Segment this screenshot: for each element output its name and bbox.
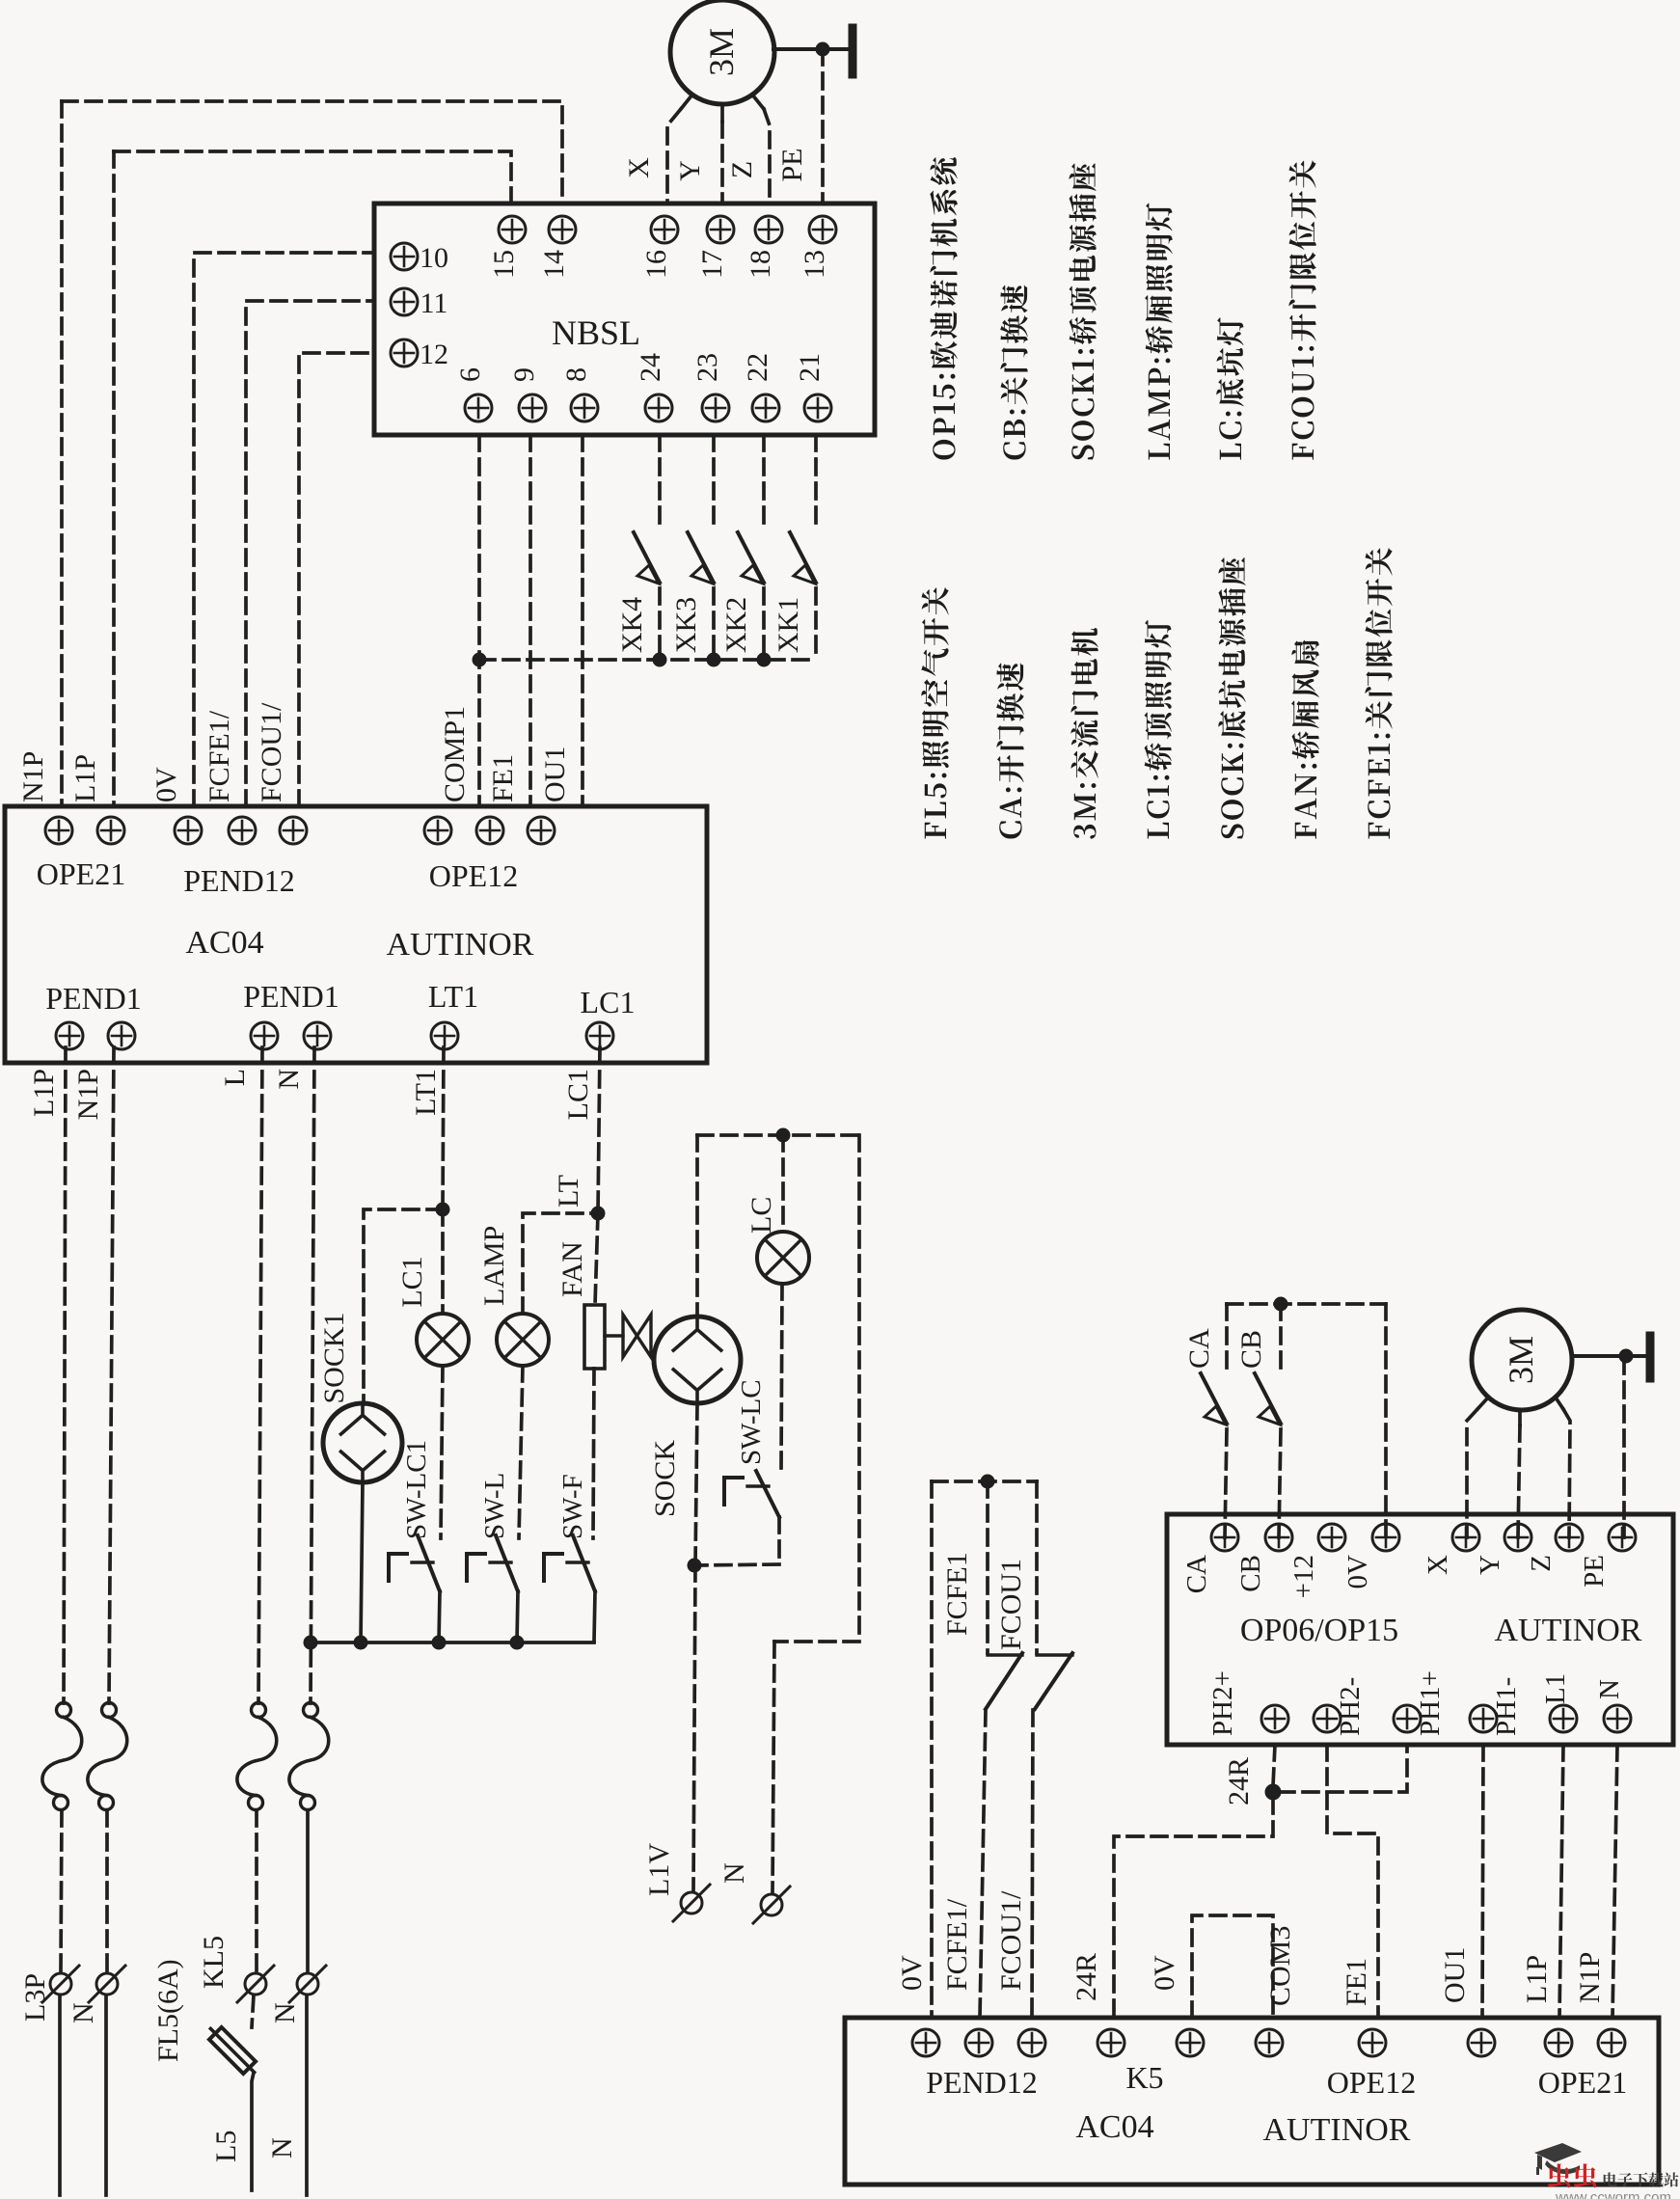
svg-text:LT1: LT1 [410,1069,442,1116]
NBSL pin 23 [702,394,729,421]
switch SW-L [496,1535,518,1642]
svg-text:N: N [269,2002,301,2023]
wire fuse elbow to L5 tail [252,2073,254,2190]
svg-text:XK4: XK4 [616,597,648,653]
wire CA stub [1225,1304,1229,1370]
junction CB [1274,1297,1287,1311]
svg-text:XK1: XK1 [772,597,804,653]
svg-text:AUTINOR: AUTINOR [1263,2112,1411,2148]
wire branch to N terminal [772,1642,774,1892]
svg-text:0V: 0V [150,767,182,802]
NBSL pin 14 [549,216,576,243]
OP06 pin L1 [1550,1705,1577,1732]
OP06 pin PH2- [1314,1705,1341,1732]
switch SW-LC1 [418,1535,440,1642]
wire PH1- to OU1 [1482,1745,1483,2018]
wire N tail [104,1995,108,2195]
svg-text:CB: CB [1235,1330,1267,1369]
OP06 pin +12 [1318,1524,1345,1551]
svg-text:FCOU1/: FCOU1/ [995,1890,1027,1991]
svg-text:N: N [68,2002,99,2023]
svg-text:SOCK1: SOCK1 [318,1312,350,1403]
svg-text:0V: 0V [1149,1955,1180,1991]
wire PE drop (bottom) [1622,1358,1626,1537]
svg-text:FCFE1: FCFE1 [941,1552,973,1636]
svg-text:LC1: LC1 [396,1256,428,1307]
junction bus [757,653,771,666]
legend text OP15 [930,157,957,459]
NBSL pin 21 [804,394,831,421]
AC04 lower terminal [304,1022,331,1049]
wire 0V drop [1384,1304,1388,1537]
wire N breaker to terminal [105,1810,109,1971]
svg-text:N1P: N1P [72,1069,104,1120]
breaker N1P-brk [88,1703,127,1810]
svg-text:AUTINOR: AUTINOR [1495,1613,1642,1648]
junction bus/N [304,1636,317,1649]
svg-text:L3P: L3P [19,1973,51,2022]
AC04 lower terminal [251,1022,278,1049]
svg-text:L1V: L1V [643,1843,675,1896]
svg-text:Y: Y [674,160,706,181]
wire lighting return bus [311,1641,594,1644]
wire K5 loop [1192,1915,1273,2018]
svg-text:L1P: L1P [1521,1955,1553,2003]
svg-text:14: 14 [538,250,570,279]
wire CB to terminal [1279,1429,1281,1537]
svg-text:L1P: L1P [28,1069,60,1117]
svg-text:LT: LT [553,1175,584,1208]
svg-text:24R: 24R [1070,1953,1102,2001]
switch SW-F actuator [544,1554,588,1581]
svg-text:X: X [1423,1555,1453,1575]
AC04 lower-box terminal [1598,2029,1625,2056]
svg-text:24: 24 [635,353,666,382]
svg-text:OP06/OP15: OP06/OP15 [1240,1613,1398,1648]
junction COMP1/bus [473,653,486,666]
svg-text:LC1: LC1 [581,985,636,1019]
AC04 AUTINOR controller box (lower) [845,2018,1659,2185]
AC04 lower-box terminal [1018,2029,1045,2056]
svg-text:FL5(6A): FL5(6A) [152,1959,184,2062]
ground symbol (bottom) [1572,1336,1650,1378]
svg-text:www.ccworm.com: www.ccworm.com [1555,2189,1671,2199]
svg-text:FE1: FE1 [1341,1958,1372,2006]
svg-text:PEND12: PEND12 [926,2065,1038,2100]
wire 24R down-left to AC04 [1114,1798,1273,2018]
AC04 lower-box terminal [1177,2029,1204,2056]
svg-text:LAMP: LAMP [478,1226,510,1306]
svg-text:N: N [1594,1679,1625,1699]
NBSL pin 13 [809,216,836,243]
wire L1P vertical column [112,151,116,806]
wire OU1 column NBSL pin 8 to AC04 [581,435,584,806]
wire FE1 column NBSL pin 9 to AC04 [528,435,532,806]
svg-text:+12: +12 [1288,1555,1319,1598]
svg-text:24R: 24R [1223,1757,1255,1805]
wire FCFE1 lower [980,1710,986,2018]
wire motor Z lead (bottom) [1556,1398,1563,1409]
svg-text:PEND12: PEND12 [183,863,295,898]
svg-text:XK2: XK2 [720,597,752,653]
switch XK1 [790,435,816,660]
NBSL controller box [374,204,875,435]
svg-text:Z: Z [726,161,758,178]
AC04 AUTINOR controller box (upper) [5,806,707,1063]
lamp LAMP [497,1314,549,1366]
svg-text:COMP1: COMP1 [439,706,471,802]
switch SW-LC1 actuator [389,1554,433,1581]
NBSL pin 17 [707,216,734,243]
switch SW-F [573,1535,595,1642]
svg-text:FCOU1/: FCOU1/ [256,702,287,802]
wire L1P horizontal run to NBSL pin 15 [114,151,511,204]
wire FCFE1/ column to NBSL pin 11 [246,301,374,806]
legend text FCFE1 [1365,548,1392,839]
svg-text:K5: K5 [1125,2060,1163,2095]
legend text LC1 [1145,620,1172,839]
wire LAMP up to LT junction [523,1213,598,1314]
wire 0V column to NBSL pin 10 [194,253,374,806]
junction 24R [1265,1784,1281,1800]
wire pit-switch bracket [932,1480,1037,1483]
switch FCOU1 [1035,1653,1072,1709]
wire N(4) breaker to terminal [306,1810,310,1971]
wire N1P horizontal top run to NBSL pin 14 [62,101,562,204]
wire pit top bracket [697,1133,859,1137]
svg-text:SOCK: SOCK [649,1440,681,1517]
wire KL5 breaker to terminal [255,1810,258,1971]
NBSL pin 10 [391,243,418,270]
AC04 upper terminal [45,817,72,844]
junction LT1 [436,1203,449,1216]
legend text FCOU1 [1288,160,1315,459]
svg-text:N: N [266,2137,298,2158]
OP06 pin X [1452,1524,1479,1551]
wire junction to FAN [595,1213,598,1305]
NBSL pin 16 [651,216,678,243]
svg-text:FAN: FAN [556,1241,588,1297]
wire LT1 down to junction [443,1047,444,1209]
AC04 lower terminal [431,1022,458,1049]
socket SOCK [654,1317,741,1403]
wire FCOU1 upper [1035,1481,1039,1653]
wire COMP1 column NBSL pin 6 to AC04 [477,435,481,806]
socket SOCK1 [323,1403,402,1482]
svg-text:XK3: XK3 [670,597,702,653]
switch SW-LC actuator [724,1478,769,1505]
AC04 lower-box terminal [1359,2029,1386,2056]
lamp LC1 [417,1314,469,1366]
switch SW-L actuator [467,1554,511,1581]
junction bus [653,653,666,666]
watermark 电子下载站 [1604,2172,1679,2186]
svg-text:Z: Z [1526,1555,1557,1572]
junction bus [707,653,720,666]
OP06 pin N [1604,1705,1631,1732]
wire L3P breaker to terminal [61,1810,62,1971]
AC04 lower-box terminal [1256,2029,1283,2056]
svg-text:PE: PE [1579,1555,1610,1588]
AC04 lower-box terminal [1468,2029,1495,2056]
svg-text:17: 17 [696,250,728,279]
wire motor Z lead [752,95,764,109]
svg-text:10: 10 [420,242,448,274]
svg-text:12: 12 [420,339,448,370]
svg-text:PH1-: PH1- [1491,1677,1522,1736]
svg-text:SW-L: SW-L [479,1473,510,1539]
svg-text:L5: L5 [210,2131,242,2162]
wire CA to terminal [1225,1429,1227,1537]
terminal N (pit) [753,1887,790,1923]
svg-text:PH2+: PH2+ [1207,1670,1238,1736]
svg-text:Y: Y [1475,1555,1505,1575]
svg-text:0V: 0V [896,1955,928,1991]
svg-text:FCFE1/: FCFE1/ [203,710,235,802]
wire L1P down to breaker [64,1047,66,1703]
wire right branch down [774,1135,859,1642]
wire motor Y lead [720,104,724,122]
svg-text:SW-F: SW-F [557,1474,588,1539]
svg-text:LT1: LT1 [428,979,478,1014]
svg-text:KL5: KL5 [198,1936,230,1989]
svg-text:FCOU1: FCOU1 [995,1559,1027,1650]
wire XK common bus to COMP1 [479,658,816,662]
svg-text:SW-LC1: SW-LC1 [401,1440,432,1539]
junction bus/SW-LC1 [432,1636,446,1649]
OP06 pin Z [1556,1524,1583,1551]
svg-text:L1: L1 [1540,1673,1571,1704]
wire LT1 to lamp LC1 [441,1209,445,1314]
svg-text:L: L [219,1069,251,1086]
svg-text:PH1+: PH1+ [1415,1670,1446,1736]
wire CB stub [1279,1304,1283,1370]
OP06 pin PH1+ [1394,1705,1421,1732]
svg-text:CA: CA [1181,1555,1212,1593]
legend text FL5 [921,587,948,839]
wire SOCK to junction [695,1403,697,1565]
NBSL pin 12 [391,339,418,366]
svg-text:PE: PE [776,148,808,181]
legend text LAMP [1145,204,1173,460]
wire N2 tail [305,1995,309,2195]
svg-text:16: 16 [640,250,672,279]
svg-text:8: 8 [560,367,592,382]
junction bus/SOCK1 [354,1636,367,1649]
svg-text:21: 21 [794,353,826,382]
lamp LC [757,1232,809,1284]
svg-text:9: 9 [508,367,540,382]
legend text LC [1216,317,1243,459]
OP06 pin PH1- [1470,1705,1497,1732]
legend text CB [1000,285,1028,460]
NBSL pin 11 [391,288,418,315]
svg-text:AC04: AC04 [185,925,263,961]
svg-text:OPE12: OPE12 [1327,2065,1416,2100]
switch XK3 [688,435,714,660]
svg-text:NBSL: NBSL [552,313,640,352]
wire PE lead [821,49,825,204]
svg-text:13: 13 [799,250,830,279]
NBSL pin 15 [499,216,526,243]
wire down to SOCK [695,1135,699,1317]
motor 3M (door AC motor, top) [670,0,774,104]
svg-text:CB: CB [1235,1555,1266,1592]
fan FAN [584,1305,651,1369]
switch FCFE1 [986,1653,1022,1709]
wire 24R to PH1+ [1279,1745,1407,1792]
svg-text:OPE21: OPE21 [1538,2065,1627,2100]
wire SW-LC to SOCK junction [694,1564,779,1565]
wire 0V column [930,1481,934,2018]
wire L3P tail [58,1995,62,2195]
OP06 pin Y [1504,1524,1531,1551]
AC04 lower-box terminal [965,2029,992,2056]
svg-text:AC04: AC04 [1075,2109,1153,2145]
AC04 lower terminal [586,1022,613,1049]
svg-text:PEND1: PEND1 [45,981,142,1016]
NBSL pin 6 [465,394,492,421]
legend text CA [996,663,1024,838]
svg-text:PEND1: PEND1 [243,979,339,1014]
OP06 pin PE [1609,1524,1636,1551]
AC04 upper terminal [528,817,555,844]
OP06 pin 0V [1372,1524,1399,1551]
AC04 upper terminal [280,817,307,844]
NBSL pin 18 [755,216,782,243]
wire motor Y lead (bottom) [1518,1410,1522,1425]
watermark graduation cap [1534,2143,1582,2175]
svg-text:N: N [273,1069,305,1090]
OP06 pin PH2+ [1261,1705,1288,1732]
svg-text:FE1: FE1 [487,754,519,802]
svg-text:N1P: N1P [1574,1952,1606,2003]
svg-text:LC1: LC1 [562,1069,594,1120]
AC04 lower terminal [108,1022,135,1049]
wire FAN to switch [593,1369,594,1538]
junction LC line [776,1128,790,1142]
wire N1P vertical column [60,101,64,806]
junction PE (bottom) [1619,1349,1633,1363]
wire motor X lead [681,95,692,109]
switch XK2 [738,435,764,660]
wire SOCK1 to bus [361,1482,363,1642]
ground symbol [773,28,853,74]
wire N1P down to breaker [109,1047,114,1703]
junction SOCK/SW-LC [688,1559,701,1572]
wire motor X lead (bottom) [1477,1398,1488,1409]
watermark 虫虫 [1548,2163,1596,2187]
svg-text:L1P: L1P [69,754,101,802]
terminal N (supply) [89,1966,125,2002]
AC04 lower terminal [56,1022,83,1049]
wire CA/CB header [1227,1302,1386,1306]
svg-text:AUTINOR: AUTINOR [387,927,534,963]
svg-text:OU1: OU1 [539,747,571,802]
breaker N-brk [289,1703,329,1810]
terminal L1V [673,1885,710,1921]
wire FCOU1 lower [1032,1710,1033,2018]
terminal KL5 [237,1966,274,2002]
svg-text:COM3: COM3 [1264,1926,1296,2006]
wire N down to bus junction and breaker [311,1047,314,1703]
NBSL pin 8 [571,394,598,421]
wire PH2+ to 24R junction [1273,1745,1275,1786]
AC04 upper terminal [175,817,202,844]
wire FCFE1 upper [986,1481,989,1653]
svg-text:0V: 0V [1342,1555,1373,1589]
OP06 pin CA [1211,1524,1238,1551]
svg-text:11: 11 [420,287,448,319]
wire KL5 to fuse [252,1995,254,2027]
breaker KL5-brk [237,1703,277,1810]
svg-text:X: X [623,157,655,178]
switch SW-LC [756,1471,779,1560]
OP06 pin CB [1265,1524,1292,1551]
AC04 upper terminal [476,817,503,844]
junction bus/SW-L [510,1636,524,1649]
NBSL pin 22 [752,394,779,421]
AC04 lower-box terminal [1545,2029,1572,2056]
AC04 upper terminal [229,817,256,844]
svg-text:FCFE1/: FCFE1/ [941,1898,973,1991]
legend text SOCK1 [1069,163,1096,459]
svg-text:OPE21: OPE21 [37,856,125,891]
switch CA [1201,1373,1227,1425]
svg-text:22: 22 [742,353,773,382]
junction FCFE1 [981,1475,994,1488]
legend text FAN [1291,640,1319,839]
svg-text:15: 15 [488,250,520,279]
switch XK4 [634,435,660,660]
junction PE/ground [816,42,829,56]
wire N to N1P [1612,1745,1617,2018]
terminal L3P [42,1966,79,2002]
svg-text:3M: 3M [702,28,741,76]
breaker L3P-brk [42,1703,82,1810]
svg-text:N: N [718,1862,750,1884]
wire LC lamp line [781,1135,785,1232]
junction LT/LC1 [591,1207,605,1220]
wire FCOU1/ column to NBSL pin 12 [299,353,374,806]
svg-text:3M: 3M [1502,1336,1540,1384]
svg-text:6: 6 [454,367,486,382]
svg-text:OPE12: OPE12 [429,858,518,893]
svg-text:PH2-: PH2- [1335,1677,1366,1736]
wire LC lamp to switch SW-LC [781,1284,782,1471]
svg-text:OU1: OU1 [1439,1947,1471,2003]
legend text 3M [1070,628,1097,839]
svg-text:SW-LC: SW-LC [736,1379,767,1465]
NBSL pin 24 [645,394,672,421]
wire LC1 column down to junction [598,1047,600,1213]
svg-text:23: 23 [691,353,723,382]
svg-text:CA: CA [1183,1328,1215,1369]
fuse FL5(6A) [204,2023,260,2078]
AC04 upper terminal [424,817,451,844]
wire L1 to L1P [1559,1745,1563,2018]
legend text SOCK [1218,557,1245,838]
wire L down to breaker [258,1047,262,1703]
wire SOCK down to L1V terminal [693,1565,695,1890]
wire branch to SOCK1 [364,1209,443,1404]
wire lamp LC1 to switch [441,1366,443,1538]
wire PH2- jog to FE1 [1327,1745,1378,2018]
AC04 lower-box terminal [1097,2029,1125,2056]
AC04 lower-box terminal [912,2029,939,2056]
switch CB [1255,1373,1281,1425]
motor 3M (bottom) [1472,1310,1572,1410]
